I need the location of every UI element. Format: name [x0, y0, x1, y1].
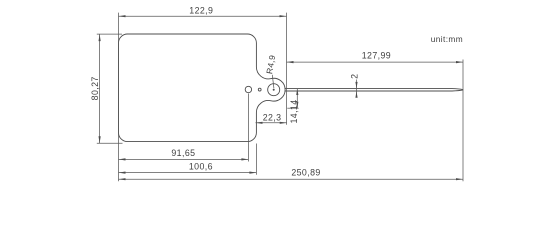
arrows 122,9 — [119, 15, 126, 17]
svg-text:91,65: 91,65 — [171, 148, 195, 158]
extension line body right — [255, 144, 257, 175]
svg-text:unit:mm: unit:mm — [431, 34, 463, 44]
svg-text:14,14: 14,14 — [289, 99, 299, 123]
leader R4,9 — [272, 75, 274, 89]
hole circle left — [245, 86, 251, 92]
strap (tail) — [285, 89, 463, 90]
arrows 80,27 — [99, 34, 101, 41]
arrows 250,89 — [119, 178, 126, 180]
dimension line 22,3 — [256, 122, 287, 124]
seal body outline — [119, 34, 286, 142]
svg-text:2: 2 — [349, 74, 359, 79]
extension line body bottom — [97, 142, 123, 144]
locking hole center dot — [273, 89, 275, 91]
dimension line 91,65 — [119, 158, 249, 160]
svg-text:127,99: 127,99 — [362, 50, 391, 60]
extension line body top — [97, 33, 122, 35]
arrows 100,6 — [119, 172, 126, 174]
dimension line 122,9 — [119, 15, 287, 17]
extension line left edge — [118, 13, 120, 182]
arrows 14,14 — [296, 89, 298, 95]
svg-text:250,89: 250,89 — [291, 168, 320, 178]
extension line tab bottom — [287, 107, 298, 109]
extension line tab right — [286, 13, 288, 125]
small pin hole — [258, 88, 261, 91]
extension line hole center — [247, 94, 249, 162]
svg-text:122,9: 122,9 — [189, 5, 213, 15]
arrows 91,65 — [119, 158, 126, 160]
arrows 22,3 — [256, 122, 263, 124]
svg-text:22,3: 22,3 — [263, 113, 282, 123]
dimension line 100,6 — [119, 172, 257, 174]
arrows 127,99 — [287, 61, 294, 63]
dimension line 2 — [356, 80, 358, 97]
arrows 2 — [355, 82, 357, 89]
svg-text:80,27: 80,27 — [90, 76, 100, 100]
dimension line 80,27 — [99, 34, 101, 143]
locking hole R4,9 — [268, 84, 280, 96]
dimension line 14,14 — [296, 89, 298, 109]
svg-text:100,6: 100,6 — [189, 161, 213, 171]
dimension line 127,99 — [287, 61, 464, 63]
dimension line 250,89 — [119, 178, 464, 180]
extension line strap tip — [462, 60, 464, 182]
